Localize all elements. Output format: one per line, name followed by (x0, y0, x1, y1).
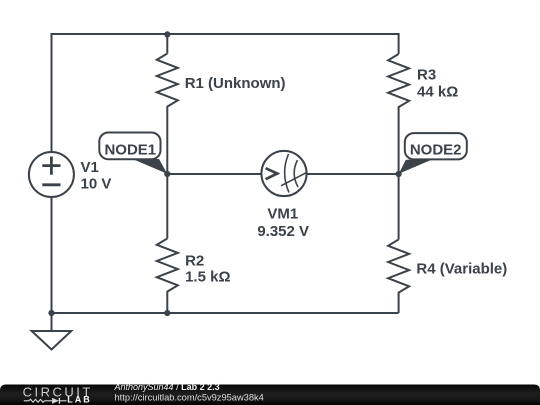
svg-text:VM1: VM1 (267, 206, 298, 223)
wire voltmeter to node2 (307, 173, 399, 175)
wire node1 to voltmeter (167, 173, 261, 175)
svg-text:R2: R2 (185, 252, 204, 269)
junction dot NODE1 (164, 171, 170, 177)
svg-text:10 V: 10 V (81, 176, 112, 193)
voltmeter VM1 (257, 151, 309, 240)
wire ground stem (51, 313, 53, 331)
svg-text:R1 (Unknown): R1 (Unknown) (185, 75, 286, 92)
wire V1 bottom lead (51, 197, 53, 313)
wire R2 bottom lead (166, 293, 168, 314)
svg-text:1.5 kΩ: 1.5 kΩ (185, 268, 230, 285)
resistor R3 (388, 54, 409, 108)
junction dot NODE2 (396, 171, 402, 177)
wire R3 bottom to R4 top (398, 108, 400, 240)
svg-text:9.352 V: 9.352 V (257, 223, 309, 240)
node NODE2 callout (399, 133, 467, 174)
junction dot bottom left (48, 310, 54, 316)
wire R4 bottom lead (398, 294, 400, 314)
voltage source V1 (29, 152, 111, 197)
svg-text:NODE1: NODE1 (104, 141, 156, 158)
ground (32, 331, 72, 350)
resistor R1 (157, 54, 178, 108)
wire R1 bottom to R2 top (166, 108, 168, 239)
svg-text:R4 (Variable): R4 (Variable) (416, 260, 507, 277)
svg-text:R3: R3 (417, 66, 436, 83)
wire bottom rail (52, 312, 399, 314)
svg-text:LAB: LAB (67, 395, 92, 405)
svg-text:NODE2: NODE2 (410, 142, 462, 159)
resistor R4 (388, 240, 409, 294)
resistor R2 (157, 239, 178, 293)
junction dot R2 bottom (164, 310, 170, 316)
svg-text:AnthonySun44 / Lab 2 2.3: AnthonySun44 / Lab 2 2.3 (114, 382, 220, 392)
wire top rail with left and right drops (52, 34, 399, 152)
svg-text:V1: V1 (81, 159, 99, 176)
node NODE1 callout (99, 133, 167, 174)
wire R1 top lead (166, 34, 168, 54)
svg-text:http://circuitlab.com/c5v9z95a: http://circuitlab.com/c5v9z95aw38k4 (115, 392, 264, 402)
svg-text:44 kΩ: 44 kΩ (417, 84, 458, 101)
CircuitLab logo resistor-diode line (24, 399, 52, 402)
junction dot top (164, 31, 170, 37)
